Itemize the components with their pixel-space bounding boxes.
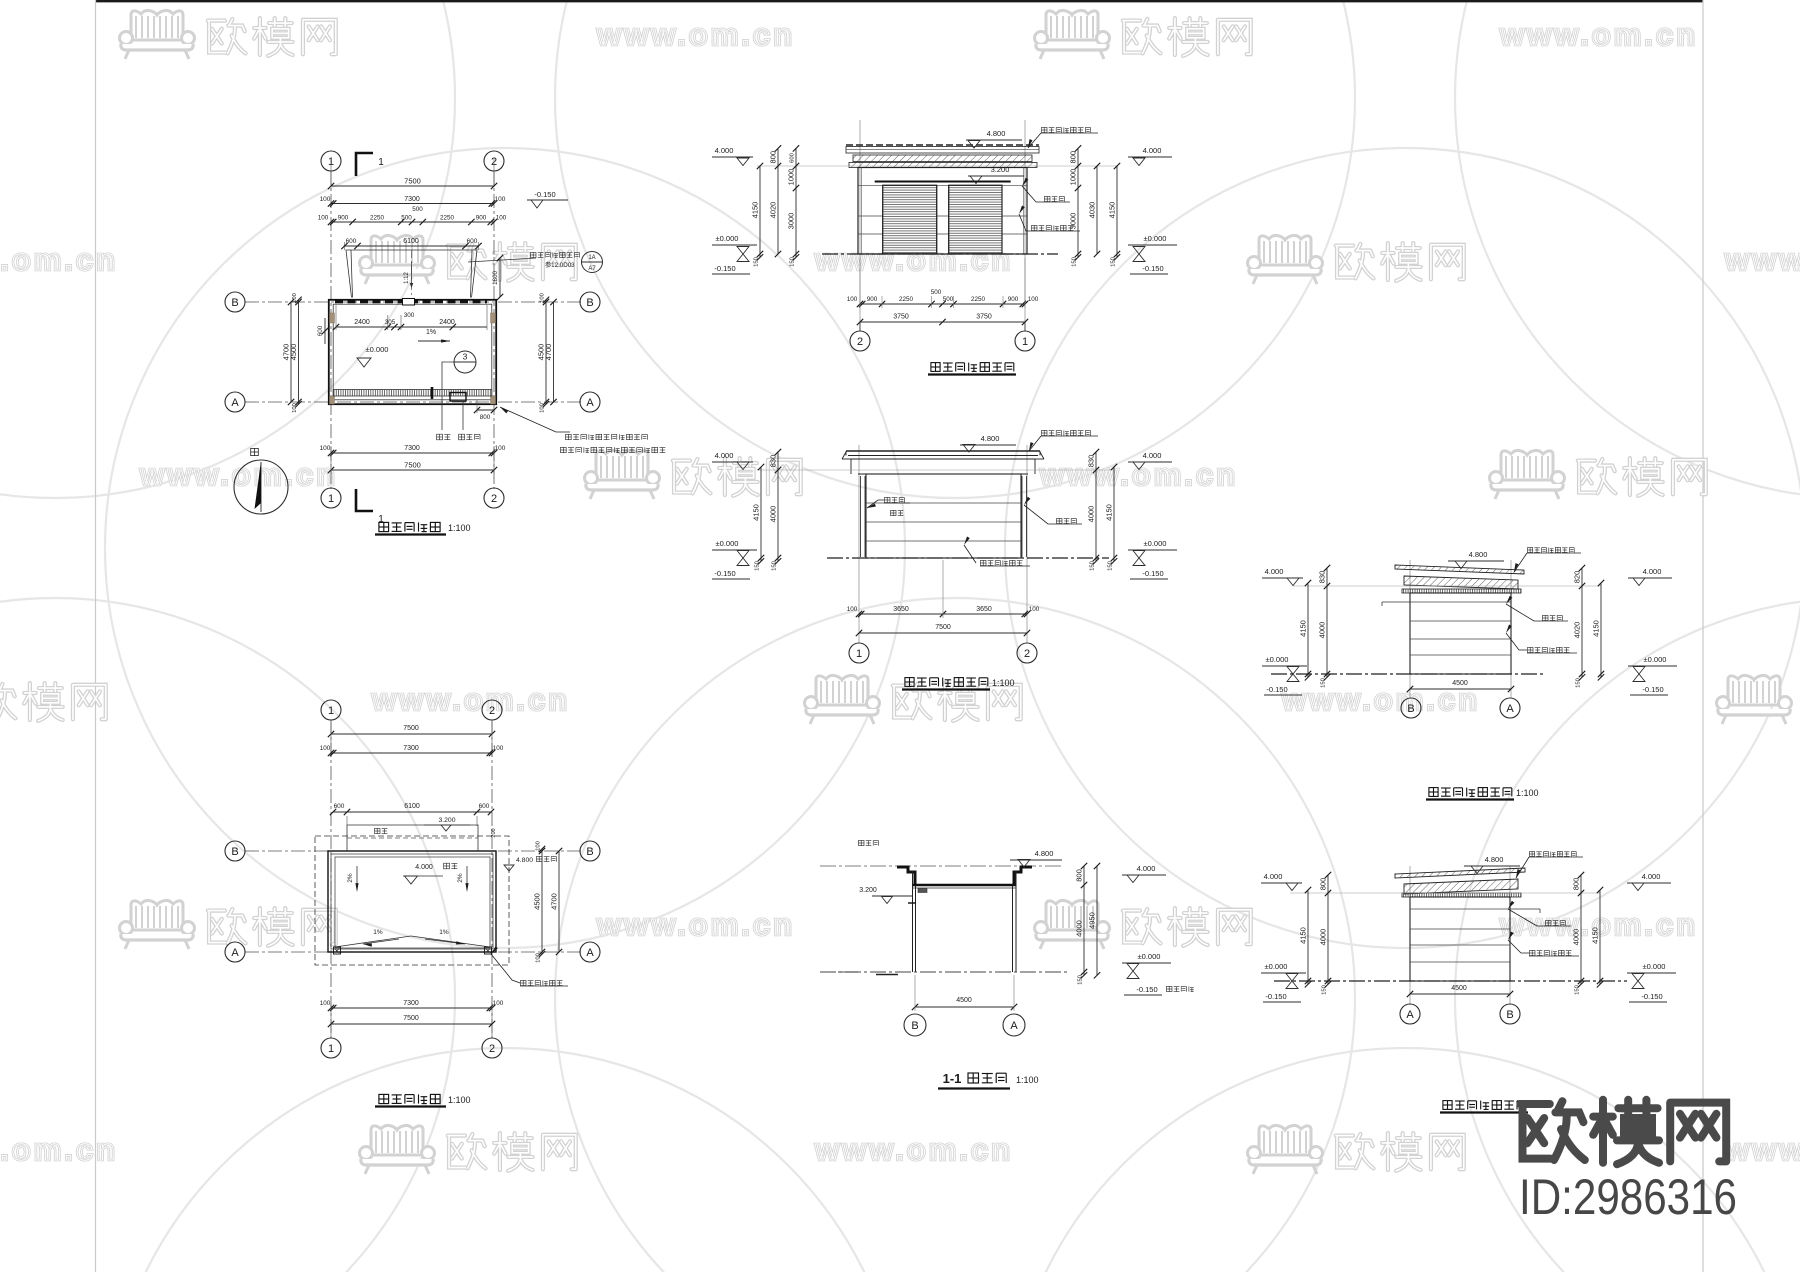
watermark sofa logo at 115,35 (120, 10, 195, 59)
svg-text:B: B (231, 846, 238, 858)
roof grid line 2 (491, 720, 493, 1038)
svg-text:200: 200 (491, 828, 497, 837)
big watermark text 欧模网 (1520, 1101, 1584, 1160)
svg-text:±0.000: ±0.000 (716, 539, 739, 548)
plan grid bubble B right (580, 292, 600, 312)
svg-text:1:100: 1:100 (1016, 1075, 1039, 1085)
svg-text:4000: 4000 (1319, 929, 1328, 946)
roof plan group (225, 700, 600, 1107)
svg-text:±0.000: ±0.000 (1644, 655, 1667, 664)
svg-text:B: B (1506, 1009, 1513, 1021)
svg-text:4500: 4500 (956, 997, 972, 1004)
roof title (379, 1094, 440, 1103)
e-elev right dim inner (1580, 875, 1582, 984)
svg-text:3750: 3750 (976, 314, 992, 321)
svg-text:305: 305 (385, 319, 396, 326)
plan outer wall (329, 300, 496, 404)
svg-text:4.000: 4.000 (1143, 451, 1162, 460)
svg-text:100: 100 (320, 196, 331, 203)
w-elev dim 4500 (1410, 688, 1511, 690)
plan dim row3 chain (331, 221, 494, 223)
watermark sofa logo at 1243,260 (1248, 235, 1323, 284)
s-elev left dim inner 830 4000 (777, 452, 779, 561)
n-elev roller door right (949, 185, 1002, 254)
svg-text:3650: 3650 (976, 606, 992, 613)
svg-text:4030: 4030 (1088, 202, 1097, 219)
sect parapet right profile (1014, 867, 1032, 886)
svg-text:600: 600 (317, 325, 324, 336)
roof outer dashed rect (eave) (315, 836, 509, 965)
svg-text:800: 800 (1069, 151, 1078, 164)
e-elev grid extension lines (1409, 866, 1411, 1005)
svg-text:100: 100 (493, 745, 504, 752)
plan note scupper text (531, 252, 580, 257)
svg-text:4150: 4150 (1299, 927, 1308, 944)
section cut mark 1 top (356, 153, 373, 176)
n-elev wall joint lines (858, 184, 1027, 186)
plan bottom dim 7500 (331, 469, 494, 471)
svg-text:www.om.cn: www.om.cn (814, 1132, 1013, 1167)
w-elev wall outline (1410, 593, 1511, 674)
svg-text:-0.150: -0.150 (1142, 264, 1163, 273)
svg-text:600: 600 (334, 803, 345, 810)
svg-text:±0.000: ±0.000 (1144, 234, 1167, 243)
roof valley lines (335, 936, 411, 947)
svg-text:100: 100 (320, 445, 331, 452)
svg-text:500: 500 (931, 289, 942, 296)
svg-text:150: 150 (1111, 257, 1117, 267)
n-elev note joint (1045, 196, 1065, 201)
e-elev wall joint lines (1410, 908, 1510, 910)
s-elev right dim outer (1113, 467, 1115, 561)
w-elev coping protrusion left (1382, 601, 1410, 603)
svg-text:4150: 4150 (1591, 927, 1600, 944)
svg-text:4500: 4500 (1452, 680, 1468, 687)
svg-text:7500: 7500 (404, 177, 421, 186)
plan left canopy dim 600 (324, 318, 326, 344)
sheet border left (95, 0, 97, 1272)
svg-text:A: A (586, 947, 594, 959)
n-elev grid bubble 1 (1024, 322, 1026, 331)
s-elev grid bubble 1 (849, 643, 869, 663)
e-elev coping protrusion right (1510, 908, 1540, 910)
svg-text:600: 600 (346, 238, 357, 245)
svg-text:4.000: 4.000 (1264, 872, 1283, 881)
w-elev note joint (1543, 615, 1563, 620)
svg-text:820: 820 (1573, 571, 1582, 584)
s-elev bottom dim 7500 (859, 632, 1027, 634)
plan canopy outline (north) (346, 250, 477, 298)
svg-text:ID:2986316: ID:2986316 (1519, 1169, 1737, 1225)
sect grid bubble A (1003, 1014, 1025, 1036)
plan grid bubble 1 bottom (321, 488, 341, 508)
svg-text:B: B (586, 846, 593, 858)
svg-text:2%: 2% (457, 873, 464, 883)
svg-text:800: 800 (769, 151, 778, 164)
svg-text:1: 1 (856, 648, 862, 660)
plan grid bubble 1 top (321, 151, 341, 171)
svg-text:B: B (911, 1020, 918, 1032)
svg-text:4.000: 4.000 (1143, 146, 1162, 155)
floor plan group (225, 151, 665, 535)
e-elev title (1443, 1101, 1526, 1110)
svg-text:±0.000: ±0.000 (1144, 539, 1167, 548)
e-elev ground line (1274, 980, 1627, 982)
north elevation group (712, 120, 1177, 375)
n-elev roof band hatched (853, 155, 1032, 162)
svg-text:6100: 6100 (403, 238, 419, 245)
svg-text:1000: 1000 (1069, 169, 1078, 186)
w-elev ground line (1271, 673, 1545, 675)
svg-text:100: 100 (1029, 606, 1040, 613)
svg-text:900: 900 (867, 296, 878, 303)
svg-text:100: 100 (496, 215, 507, 222)
svg-text:-0.150: -0.150 (714, 264, 735, 273)
roof canopy outline (347, 825, 478, 851)
n-elev ground line (822, 253, 1058, 255)
plan grid line B (horizontal dash-dot) (245, 301, 582, 303)
plan top wall dashed (opening) (335, 300, 487, 303)
svg-text:4.000: 4.000 (1137, 864, 1156, 873)
svg-text:A: A (231, 947, 239, 959)
n-elev lintel 3.200 (875, 181, 1011, 183)
plan grid line A (horizontal dash-dot) (245, 401, 582, 403)
svg-text:2400: 2400 (439, 319, 455, 326)
svg-text:4500: 4500 (533, 893, 542, 910)
svg-text:4.800: 4.800 (1485, 855, 1504, 864)
svg-text:150: 150 (1090, 561, 1096, 571)
plan bottom dim 100 7300 100 (331, 452, 494, 454)
e-elev note joint (1546, 920, 1566, 925)
n-elev bottom dim chain (860, 303, 1025, 305)
svg-text:www.om.cn: www.om.cn (1724, 242, 1800, 277)
svg-text:www.om.cn: www.om.cn (0, 242, 118, 277)
sect left wall (912, 871, 914, 972)
plan dim row1 7500 top (330, 158, 332, 186)
plan interior dim 2400/300/2400 (336, 326, 487, 328)
s-elev left dim outer 4150 (760, 467, 762, 561)
svg-text:A: A (586, 397, 594, 409)
svg-text:2250: 2250 (971, 296, 986, 303)
watermark sofa logo at 1485,475 (1490, 450, 1565, 499)
svg-text:4.000: 4.000 (715, 146, 734, 155)
plan roller shutter band (south wall) (333, 390, 492, 397)
roof bottom dim 100 7300 100 (331, 1007, 492, 1009)
svg-text:1%: 1% (373, 929, 383, 936)
svg-text:-0.150: -0.150 (1265, 992, 1286, 1001)
svg-text:7300: 7300 (403, 745, 419, 752)
n-elev left dim col mid (777, 148, 779, 254)
e-elev grid bubble B (1500, 1004, 1520, 1024)
n-elev title (931, 363, 1014, 372)
svg-text:900: 900 (1008, 296, 1019, 303)
s-elev grid extension lines (858, 445, 860, 643)
svg-text:100: 100 (318, 215, 329, 222)
svg-text:2250: 2250 (440, 215, 455, 222)
north compass (234, 460, 288, 514)
svg-text:www.om.cn: www.om.cn (1499, 17, 1698, 52)
plan corner column top-right (491, 313, 496, 323)
svg-text:4150: 4150 (1592, 620, 1601, 637)
s-elev 4.000 level extension line (757, 469, 1113, 471)
svg-text:4000: 4000 (1318, 622, 1327, 639)
s-elev cornice end flares (842, 452, 846, 459)
svg-text:4150: 4150 (752, 504, 761, 521)
plan left dim 100 4500 100 (298, 300, 300, 404)
plan dim 800 bottom-right (477, 409, 494, 411)
e-elev fascia strip (1402, 893, 1521, 897)
w-elev note brown paint (1528, 548, 1575, 553)
sect grid bubble B (904, 1014, 926, 1036)
svg-text:-0.150: -0.150 (1136, 985, 1157, 994)
svg-text:3.200: 3.200 (859, 887, 877, 894)
roof grid bubbles (321, 700, 341, 720)
svg-text:900: 900 (476, 215, 487, 222)
plan right dim 1800 canopy (499, 258, 501, 297)
plan corner column bottom-right (491, 396, 496, 404)
east elevation group (1261, 852, 1676, 1113)
svg-text:-0.150: -0.150 (714, 569, 735, 578)
svg-text:4000: 4000 (1087, 506, 1096, 523)
s-elev fascia bottom edge (858, 473, 1028, 475)
sect ground ticks left (876, 974, 898, 976)
n-elev wall outline (858, 168, 1027, 255)
svg-text:150: 150 (755, 561, 761, 571)
n-elev left dim col outer 4150 (759, 166, 761, 257)
svg-text:100: 100 (320, 745, 331, 752)
svg-text:7500: 7500 (403, 1015, 419, 1022)
svg-text:800: 800 (1075, 869, 1084, 882)
svg-text:4.800: 4.800 (987, 129, 1006, 138)
svg-text:1:100: 1:100 (448, 1095, 471, 1105)
s-elev roof cornice (846, 450, 1040, 452)
svg-text:A: A (231, 397, 239, 409)
svg-text:150: 150 (1072, 257, 1078, 267)
plan dim row4 canopy 600 6100 600 (344, 242, 346, 250)
svg-text:100: 100 (495, 445, 506, 452)
svg-text:600: 600 (790, 153, 796, 163)
svg-text:4700: 4700 (544, 344, 553, 361)
section cut mark 1 bottom (356, 489, 373, 511)
w-elev note light paint (1528, 647, 1570, 652)
svg-text:1: 1 (328, 1043, 334, 1055)
e-elev note brown paint (1530, 852, 1577, 857)
svg-text:www.om.cn: www.om.cn (371, 682, 570, 717)
svg-text:150: 150 (1575, 985, 1581, 995)
svg-text:3000: 3000 (787, 213, 796, 230)
section 1-1 group (820, 840, 1194, 1088)
svg-text:4020: 4020 (769, 202, 778, 219)
svg-text:4150: 4150 (751, 202, 760, 219)
svg-text:1: 1 (328, 705, 334, 717)
svg-text:600: 600 (467, 238, 478, 245)
roof dim 600 6100 600 (333, 811, 491, 813)
sect label top-left (859, 840, 879, 845)
svg-text:500: 500 (401, 215, 412, 222)
svg-text:150: 150 (754, 257, 760, 267)
svg-text:1000: 1000 (787, 169, 796, 186)
plan grid bubble A left (225, 392, 245, 412)
svg-text:1: 1 (378, 157, 384, 168)
svg-text:1:100: 1:100 (1516, 788, 1539, 798)
w-elev fascia strip (1402, 589, 1521, 593)
svg-text:100: 100 (847, 606, 858, 613)
svg-text:4.800: 4.800 (1035, 849, 1054, 858)
svg-text:B: B (231, 297, 238, 309)
e-elev dim 4500 (1410, 993, 1510, 995)
svg-text:1%: 1% (439, 929, 449, 936)
plan grid bubble 2 top (484, 151, 504, 171)
sheet border right (1702, 0, 1704, 1272)
n-elev bottom dim 3750 3750 (860, 321, 1025, 323)
svg-text:±0.000: ±0.000 (366, 345, 389, 354)
n-elev right dim col mid 4030 (1096, 166, 1098, 254)
plan corner column top-left (330, 313, 335, 323)
n-elev fascia hatched strip (849, 163, 1037, 168)
roof right dim 4500 (541, 849, 543, 954)
svg-text:参12.0D03: 参12.0D03 (545, 261, 575, 269)
s-elev note brown paint top (1042, 430, 1091, 435)
svg-text:A: A (1406, 1009, 1414, 1021)
plan detail circle 1A/A7 (582, 252, 603, 273)
svg-text:100: 100 (536, 841, 542, 851)
svg-text:2: 2 (491, 493, 497, 505)
svg-text:6100: 6100 (404, 803, 420, 810)
w-elev right dim inner (1581, 568, 1583, 677)
svg-text:www.om.cn: www.om.cn (1724, 1132, 1800, 1167)
svg-text:830: 830 (769, 455, 778, 468)
svg-text:7300: 7300 (403, 1000, 419, 1007)
watermark sofa logo at 355,1150 (360, 1125, 435, 1174)
svg-text:-0.150: -0.150 (534, 190, 555, 199)
s-elev ground line (827, 557, 1109, 559)
svg-text:7300: 7300 (404, 196, 420, 203)
w-elev left dim inner (1326, 568, 1328, 677)
svg-text:www.om.cn: www.om.cn (139, 457, 338, 492)
svg-text:2: 2 (489, 1043, 495, 1055)
svg-text:www.om.cn: www.om.cn (596, 907, 795, 942)
svg-text:B: B (586, 297, 593, 309)
svg-text:2%: 2% (347, 873, 354, 883)
sect right dim col inner (1083, 866, 1085, 975)
svg-text:4000: 4000 (1075, 920, 1084, 937)
svg-text:2: 2 (489, 705, 495, 717)
s-elev wall joint lines (866, 502, 1021, 504)
roof top dim 7500 (331, 733, 492, 735)
svg-text:7500: 7500 (404, 461, 421, 470)
w-elev 4.000 level extension line (1293, 585, 1601, 587)
e-elev left dim inner (1327, 875, 1329, 984)
sect right dim col outer 4950 (1096, 866, 1098, 975)
svg-text:3750: 3750 (893, 314, 909, 321)
sect beam hatch left (918, 889, 927, 893)
n-elev note light paint (1032, 225, 1074, 230)
e-elev grid bubble A (1400, 1004, 1420, 1024)
plan right note leader 600 san shui (500, 407, 570, 432)
svg-text:±0.000: ±0.000 (1138, 952, 1161, 961)
plan grid bubble B left (225, 292, 245, 312)
svg-text:-0.150: -0.150 (1642, 685, 1663, 694)
svg-text:100: 100 (292, 403, 298, 413)
svg-text:4150: 4150 (1299, 620, 1308, 637)
south elevation group (712, 430, 1177, 689)
sect roof slab (913, 884, 1016, 886)
n-elev roof band upper (846, 147, 1039, 154)
svg-text:4.800: 4.800 (981, 434, 1000, 443)
svg-text:830: 830 (1087, 455, 1096, 468)
svg-text:4020: 4020 (1573, 622, 1582, 639)
roof inner rect (335, 857, 490, 948)
svg-text:2250: 2250 (370, 215, 385, 222)
svg-text:1800: 1800 (492, 271, 499, 286)
plan detail circle 3 (454, 351, 476, 373)
s-elev note downpipe (885, 497, 905, 502)
svg-text:100: 100 (540, 293, 546, 303)
svg-text:4500: 4500 (1451, 985, 1467, 992)
n-elev right dim col inner (1077, 148, 1079, 257)
s-elev note joint (1057, 518, 1077, 523)
svg-text:4.800: 4.800 (516, 857, 533, 864)
e-elev left dim outer 4150 (1307, 890, 1309, 984)
svg-text:4000: 4000 (769, 506, 778, 523)
svg-text:www.om.cn: www.om.cn (1281, 682, 1480, 717)
svg-text:100: 100 (536, 953, 542, 963)
plan grid bubble A right (580, 392, 600, 412)
sect 3.200 ledge (908, 902, 916, 904)
roof right dim 4700 (558, 851, 560, 952)
svg-text:-0.150: -0.150 (1641, 992, 1662, 1001)
s-elev note light paint (981, 560, 1023, 565)
svg-text:±0.000: ±0.000 (1643, 962, 1666, 971)
svg-text:100: 100 (320, 1000, 331, 1007)
w-elev grid extension lines (1409, 560, 1411, 698)
roof grid line A (245, 951, 582, 953)
svg-text:150: 150 (1108, 561, 1114, 571)
w-elev right dim outer (1600, 583, 1602, 677)
svg-text:4500: 4500 (289, 344, 298, 361)
svg-text:3.200: 3.200 (991, 165, 1010, 174)
svg-text:-0.150: -0.150 (1266, 685, 1287, 694)
sect dim 4500 (915, 1006, 1014, 1008)
roof bottom dim 7500 (331, 1023, 492, 1025)
svg-text:100: 100 (495, 196, 506, 203)
svg-text:1:100: 1:100 (448, 523, 471, 533)
svg-text:4150: 4150 (1108, 202, 1117, 219)
e-elev wall outline (1410, 897, 1510, 981)
svg-text:4000: 4000 (1572, 929, 1581, 946)
svg-text:1:12: 1:12 (404, 272, 410, 284)
n-elev grid bubble 2 (859, 322, 861, 331)
s-elev bottom dim 100 3650 3650 100 (859, 613, 1027, 615)
svg-text:500: 500 (943, 296, 954, 303)
sheet border top (95, 0, 1703, 2)
svg-text:A: A (1010, 1020, 1018, 1032)
w-elev wall joint lines (1410, 601, 1511, 603)
plan grid line 2 (vertical dash-dot) (493, 171, 495, 489)
svg-text:300: 300 (404, 312, 415, 319)
roof grid line B (245, 850, 582, 852)
svg-text:600: 600 (479, 803, 490, 810)
watermark sofa logo at 1030,925 (1035, 900, 1110, 949)
svg-text:1%: 1% (426, 329, 436, 336)
plan grid line 1 (vertical dash-dot) (330, 171, 332, 489)
svg-text:4.000: 4.000 (1642, 872, 1661, 881)
watermark sofa logo at 800,700 (805, 675, 880, 724)
plan right dim 4500/4700 (545, 300, 547, 404)
plan leader to detail circle (468, 258, 536, 262)
svg-text:2250: 2250 (899, 296, 914, 303)
roof drain left (334, 947, 341, 954)
